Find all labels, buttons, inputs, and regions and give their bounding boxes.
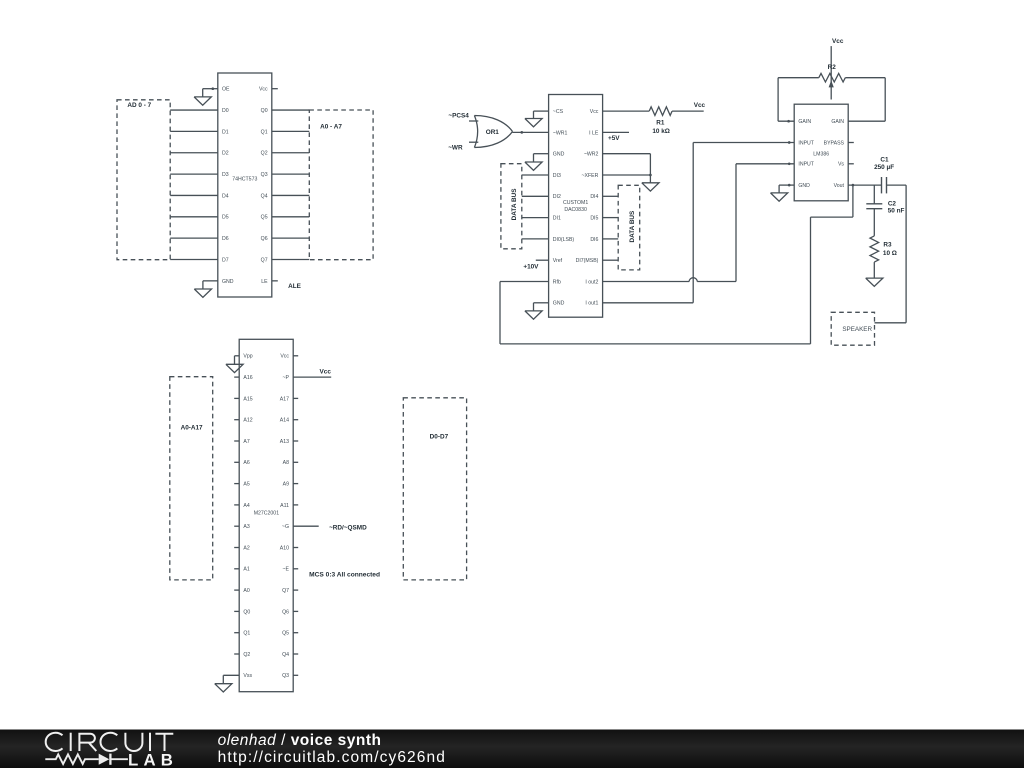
svg-text:D2: D2 bbox=[222, 151, 229, 157]
svg-text:Q6: Q6 bbox=[282, 609, 289, 615]
svg-text:M27C2001: M27C2001 bbox=[254, 511, 279, 517]
svg-text:A14: A14 bbox=[280, 418, 289, 424]
svg-text:AD 0 - 7: AD 0 - 7 bbox=[127, 102, 151, 109]
IC U1 74HCT573 octal latch body and pin labels bbox=[218, 73, 272, 297]
node dot at U4 GAIN left bbox=[787, 120, 790, 123]
wires data bus DI4-DI7 out of U2 bbox=[603, 195, 619, 197]
svg-text:A15: A15 bbox=[243, 396, 252, 402]
svg-text:I LE: I LE bbox=[589, 130, 599, 136]
svg-text:Q5: Q5 bbox=[282, 631, 289, 637]
svg-text:GND: GND bbox=[553, 301, 565, 307]
svg-text:A11: A11 bbox=[280, 503, 289, 509]
svg-text:MCS 0:3 All connected: MCS 0:3 All connected bbox=[309, 572, 380, 579]
svg-text:D6: D6 bbox=[222, 236, 229, 242]
svg-text:I out1: I out1 bbox=[585, 301, 598, 307]
svg-text:Vcc: Vcc bbox=[832, 38, 844, 45]
svg-text:Vpp: Vpp bbox=[243, 354, 252, 360]
wire Vout node to C2 bbox=[873, 185, 875, 204]
svg-text:LAB: LAB bbox=[128, 750, 178, 768]
wire R1 to Vcc bbox=[672, 110, 704, 112]
svg-text:Vout: Vout bbox=[834, 183, 845, 189]
svg-text:ALE: ALE bbox=[288, 283, 302, 290]
svg-text:+10V: +10V bbox=[523, 263, 539, 270]
node dot at U4 INPUT lower bbox=[788, 162, 791, 165]
or-gate OR1 body bbox=[474, 116, 512, 148]
wire OR1 input ~WR bbox=[469, 141, 478, 143]
svg-text:SPEAKER: SPEAKER bbox=[842, 326, 872, 333]
svg-text:Vss: Vss bbox=[243, 673, 252, 679]
svg-text:Q4: Q4 bbox=[282, 652, 289, 658]
svg-text:~P: ~P bbox=[283, 375, 290, 381]
svg-text:CUSTOM1: CUSTOM1 bbox=[563, 200, 588, 206]
CircuitLab logo wordmark CIRCUIT (drawn thin letters) bbox=[46, 733, 63, 751]
svg-text:Q1: Q1 bbox=[243, 631, 250, 637]
svg-text:A1: A1 bbox=[243, 567, 249, 573]
svg-text:Q3: Q3 bbox=[261, 172, 268, 178]
svg-text:DATA BUS: DATA BUS bbox=[511, 188, 518, 221]
svg-text:DI0(LSB): DI0(LSB) bbox=[553, 237, 575, 243]
svg-text:DATA BUS: DATA BUS bbox=[629, 210, 636, 243]
svg-text:Q2: Q2 bbox=[261, 151, 268, 157]
svg-text:D7: D7 bbox=[222, 257, 229, 263]
svg-text:A13: A13 bbox=[280, 439, 289, 445]
svg-text:OE: OE bbox=[222, 87, 230, 93]
svg-text:A17: A17 bbox=[280, 396, 289, 402]
ground symbol at ~XFER bbox=[642, 183, 659, 191]
svg-text:~RD/~QSMD: ~RD/~QSMD bbox=[329, 525, 367, 532]
logo resistor symbol bbox=[45, 754, 98, 764]
svg-text:A6: A6 bbox=[243, 460, 249, 466]
svg-text:A4: A4 bbox=[243, 503, 249, 509]
svg-text:INPUT: INPUT bbox=[798, 140, 814, 146]
svg-text:D4: D4 bbox=[222, 193, 229, 199]
svg-text:A2: A2 bbox=[243, 545, 249, 551]
svg-text:A3: A3 bbox=[243, 524, 249, 530]
svg-text:10 Ω: 10 Ω bbox=[883, 250, 897, 257]
svg-text:DI2: DI2 bbox=[553, 194, 561, 200]
wire ~XFER node to ground bbox=[649, 175, 651, 183]
svg-text:74HCT573: 74HCT573 bbox=[232, 177, 257, 183]
wire U2 ~CS to ground bbox=[534, 110, 549, 112]
svg-text:GAIN: GAIN bbox=[798, 119, 811, 125]
pin stub U1 Vcc bbox=[272, 88, 278, 90]
svg-text:R3: R3 bbox=[883, 242, 892, 249]
svg-text:~WR1: ~WR1 bbox=[553, 130, 568, 136]
svg-text:A0-A17: A0-A17 bbox=[181, 425, 203, 432]
bus box D0-D7 bbox=[403, 398, 466, 580]
svg-text:50 nF: 50 nF bbox=[888, 208, 905, 215]
potentiometer R2 wiper arrow bbox=[829, 80, 834, 87]
svg-text:~E: ~E bbox=[283, 567, 290, 573]
ground symbol at U4 GND bbox=[771, 193, 788, 201]
bus box AD 0 - 7 bbox=[117, 100, 170, 260]
wires A bus Q0-Q7 out of U1 bbox=[272, 109, 310, 111]
node dot on OR1 output bbox=[520, 131, 523, 134]
svg-text:Vcc: Vcc bbox=[259, 87, 268, 93]
node dot at Vout bbox=[852, 184, 855, 187]
svg-text:D0: D0 bbox=[222, 108, 229, 114]
svg-text:GND: GND bbox=[222, 279, 234, 285]
bus box DATA BUS left bbox=[501, 164, 522, 249]
wire U4 GND to ground bbox=[779, 184, 794, 186]
ground symbol at U3 Vss bbox=[215, 684, 232, 692]
logo diode symbol bbox=[99, 754, 110, 765]
svg-text:I out2: I out2 bbox=[585, 279, 598, 285]
svg-text:Vref: Vref bbox=[553, 258, 563, 264]
svg-text:+5V: +5V bbox=[608, 135, 620, 142]
svg-text:DI3: DI3 bbox=[553, 173, 561, 179]
svg-text:Vcc: Vcc bbox=[590, 109, 599, 115]
wire R2 right end to U4 GAIN (right) bbox=[845, 77, 885, 79]
pin stub U1 LE bbox=[272, 280, 278, 282]
IC U2 CUSTOM1 DAC0830 body and pin labels bbox=[549, 95, 603, 318]
svg-text:Q7: Q7 bbox=[282, 588, 289, 594]
wire U3 ~P to Vcc bbox=[293, 376, 331, 378]
svg-text:A0 - A7: A0 - A7 bbox=[320, 124, 342, 131]
svg-text:A7: A7 bbox=[243, 439, 249, 445]
svg-text:Rfb: Rfb bbox=[553, 279, 561, 285]
IC U3 M27C2001 EPROM body and pin labels bbox=[239, 339, 293, 691]
svg-text:Q1: Q1 bbox=[261, 129, 268, 135]
svg-text:LM386: LM386 bbox=[813, 152, 829, 158]
svg-text:DI1: DI1 bbox=[553, 216, 561, 222]
wire U2 ~WR2 to ~XFER bbox=[603, 153, 651, 155]
wire OE pin of U1 to ground bbox=[203, 88, 218, 90]
node dot at U4 INPUT upper bbox=[788, 141, 791, 144]
svg-text:D3: D3 bbox=[222, 172, 229, 178]
wire Vcc to R2 wiper bbox=[830, 46, 832, 99]
ground symbol at U2 GND pin 3 bbox=[525, 162, 542, 170]
svg-text:http://circuitlab.com/cy626nd: http://circuitlab.com/cy626nd bbox=[218, 749, 446, 766]
svg-text:A12: A12 bbox=[243, 418, 252, 424]
pin stub U4 BYPASS bbox=[848, 142, 854, 144]
svg-text:Q2: Q2 bbox=[243, 652, 250, 658]
svg-text:DI6: DI6 bbox=[590, 237, 598, 243]
svg-text:GND: GND bbox=[553, 152, 565, 158]
capacitor C1 plates bbox=[881, 177, 883, 193]
bus box A0 - A7 bbox=[309, 110, 373, 260]
resistor R1 bbox=[649, 107, 672, 116]
svg-text:~WR2: ~WR2 bbox=[584, 152, 599, 158]
svg-text:Vs: Vs bbox=[838, 162, 844, 168]
wire R3 to ground bbox=[873, 262, 875, 278]
wire OR1 input ~PCS4 bbox=[469, 120, 478, 122]
svg-text:Q4: Q4 bbox=[261, 193, 268, 199]
svg-text:A16: A16 bbox=[243, 375, 252, 381]
svg-text:GAIN: GAIN bbox=[831, 119, 844, 125]
bus box DATA BUS right bbox=[618, 185, 640, 270]
svg-text:D5: D5 bbox=[222, 215, 229, 221]
svg-text:OR1: OR1 bbox=[486, 129, 500, 136]
svg-text:Q3: Q3 bbox=[282, 673, 289, 679]
svg-text:A0: A0 bbox=[243, 588, 249, 594]
wire +5V to U2 I LE bbox=[603, 131, 629, 133]
bus box A0-A17 bbox=[170, 377, 213, 580]
wire U3 Vpp to ground bbox=[235, 355, 240, 357]
svg-text:~WR: ~WR bbox=[448, 144, 463, 151]
svg-text:A5: A5 bbox=[243, 482, 249, 488]
svg-text:Vcc: Vcc bbox=[694, 102, 706, 109]
wire U2 I out1 to U4 INPUT (upper) bbox=[603, 302, 694, 304]
svg-text:C2: C2 bbox=[888, 201, 897, 208]
svg-text:C1: C1 bbox=[880, 156, 889, 163]
wire U2 GND (pin 3) to ground bbox=[534, 153, 549, 155]
svg-text:~G: ~G bbox=[282, 524, 289, 530]
svg-text:~XFER: ~XFER bbox=[582, 173, 599, 179]
wire U4 Vout to C1 bbox=[848, 184, 881, 186]
wire U2 GND (pin 10) to ground bbox=[534, 302, 549, 304]
svg-text:Q0: Q0 bbox=[243, 609, 250, 615]
IC U4 LM386 body and pin labels bbox=[794, 104, 848, 201]
node dot on OE pin wire bbox=[211, 87, 214, 90]
resistor R3 bbox=[870, 236, 879, 262]
potentiometer R2 body bbox=[819, 73, 846, 82]
svg-text:olenhad / voice synth: olenhad / voice synth bbox=[218, 732, 382, 749]
svg-text:R2: R2 bbox=[828, 64, 837, 71]
svg-text:Vcc: Vcc bbox=[320, 368, 332, 375]
wire GND pin of U1 to ground bbox=[203, 280, 218, 282]
ground symbol at R3 bbox=[866, 278, 883, 286]
wire U2 Vcc to R1 bbox=[603, 110, 650, 112]
svg-text:DI5: DI5 bbox=[590, 216, 598, 222]
footer bar bbox=[0, 730, 1024, 768]
svg-text:250 µF: 250 µF bbox=[874, 164, 894, 171]
svg-text:INPUT: INPUT bbox=[798, 162, 814, 168]
wire U3 ~G to ~RD/~QSMD bbox=[293, 525, 319, 527]
wire C2 to R3 bbox=[873, 209, 875, 236]
capacitor C2 plates bbox=[866, 203, 882, 205]
wires data bus DI3-DI0 into U2 bbox=[522, 174, 549, 176]
svg-text:10 kΩ: 10 kΩ bbox=[652, 128, 670, 135]
ground symbol at U1 GND bbox=[194, 289, 211, 297]
ground symbol at U1 OE bbox=[194, 97, 211, 105]
svg-text:Q7: Q7 bbox=[261, 257, 268, 263]
wire C1 to speaker branch bbox=[887, 184, 907, 186]
svg-text:A8: A8 bbox=[283, 460, 289, 466]
pin stubs U3 left pins bbox=[234, 376, 239, 378]
svg-text:D1: D1 bbox=[222, 129, 229, 135]
wire +10V to U2 Vref bbox=[536, 259, 549, 261]
ground symbol at U3 Vpp bbox=[226, 364, 243, 372]
svg-text:LE: LE bbox=[261, 279, 268, 285]
ground symbol at U2 GND pin 10 bbox=[525, 311, 542, 319]
ground symbol at U2 ~CS bbox=[525, 119, 542, 127]
svg-text:Q6: Q6 bbox=[261, 236, 268, 242]
wire OR1 output to U2 ~WR1 bbox=[513, 131, 549, 133]
svg-text:~PCS4: ~PCS4 bbox=[448, 113, 469, 120]
svg-text:R1: R1 bbox=[656, 119, 665, 126]
svg-text:BYPASS: BYPASS bbox=[824, 140, 845, 146]
svg-text:DI7(MSB): DI7(MSB) bbox=[576, 258, 599, 264]
svg-text:GND: GND bbox=[798, 183, 810, 189]
svg-text:~CS: ~CS bbox=[553, 109, 564, 115]
speaker box SPEAKER bbox=[831, 312, 874, 345]
svg-text:Q5: Q5 bbox=[261, 215, 268, 221]
pin stub U4 Vs bbox=[848, 163, 854, 165]
svg-text:A9: A9 bbox=[283, 482, 289, 488]
svg-text:DI4: DI4 bbox=[590, 194, 598, 200]
svg-text:Vcc: Vcc bbox=[280, 354, 289, 360]
node dot at U4 GND bbox=[788, 184, 791, 187]
wires AD bus D0-D7 into U1 bbox=[170, 109, 218, 111]
wire R2 left end to U4 GAIN (left) bbox=[778, 77, 819, 79]
node dot at ~XFER corner bbox=[649, 174, 652, 177]
wire U2 Rfb feedback loop to Vout bbox=[500, 281, 549, 283]
svg-text:A10: A10 bbox=[280, 545, 289, 551]
wire U3 Vss to ground bbox=[223, 674, 239, 676]
wire U2 I out2 to U4 INPUT (lower) with hop bbox=[603, 281, 690, 283]
svg-text:DAC0830: DAC0830 bbox=[564, 207, 587, 213]
svg-text:D0-D7: D0-D7 bbox=[430, 434, 449, 441]
pin stubs U3 right pins bbox=[293, 355, 298, 357]
svg-text:Q0: Q0 bbox=[261, 108, 268, 114]
